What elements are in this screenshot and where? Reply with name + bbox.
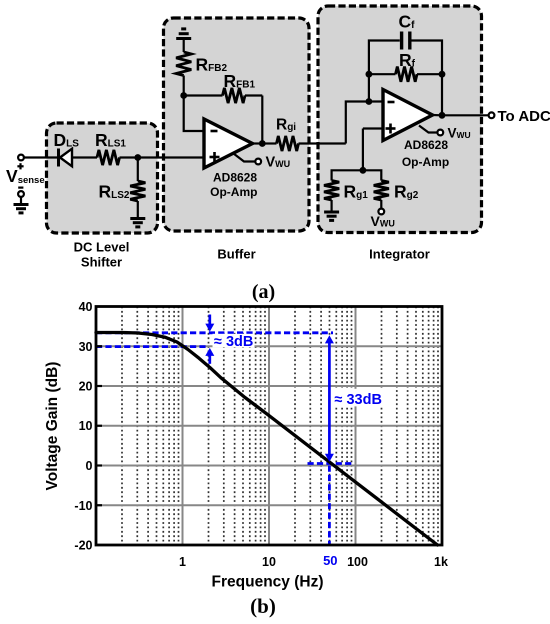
wire + input down to divider: [362, 129, 364, 171]
junction node at RLS2 top: [134, 154, 141, 161]
resistor RLS2: [130, 181, 145, 201]
node Vsense+ terminal: [18, 155, 24, 161]
svg-text:-20: -20: [74, 539, 92, 553]
svg-text:40: 40: [79, 300, 93, 314]
wire left node up to Cf: [369, 41, 400, 75]
resistor RFB1: [223, 88, 246, 103]
wire Rg1 to ground: [331, 200, 333, 212]
svg-text:Op-Amp: Op-Amp: [210, 185, 257, 199]
wire node down to RLS2: [137, 158, 139, 182]
wire output to ADC terminal: [442, 114, 489, 116]
chart frame: [96, 307, 442, 546]
svg-text:Shifter: Shifter: [81, 255, 122, 270]
wire RFB2 to feedback node: [183, 76, 185, 96]
svg-text:Integrator: Integrator: [369, 247, 430, 262]
diode DLS: [59, 149, 73, 167]
pin VWU of U1: [234, 154, 262, 165]
svg-text:Frequency (Hz): Frequency (Hz): [212, 574, 324, 591]
svg-text:20: 20: [79, 380, 93, 394]
annotation dashed line 30dB level: [96, 345, 208, 348]
junction output node buffer: [259, 140, 266, 147]
svg-text:1k: 1k: [434, 555, 448, 569]
Integrator block box: [318, 6, 482, 233]
wire right node down to output: [441, 74, 443, 115]
resistor Rgi: [277, 136, 299, 151]
wire divider node right to Rg2: [363, 170, 381, 180]
wire RLS1 to buffer + input (through node): [120, 156, 205, 158]
wire up to inverting input of U2: [346, 102, 383, 144]
svg-text:≈ 3dB: ≈ 3dB: [214, 334, 253, 350]
annotation label 3dB: [213, 334, 255, 350]
ground at Vsense-: [14, 205, 29, 213]
resistor Rg1: [324, 181, 339, 201]
wire Rf to right node: [417, 73, 442, 75]
svg-text:100: 100: [347, 555, 368, 569]
annotation arrow up 3dB: [205, 348, 214, 364]
wire Cf to right node: [412, 41, 443, 75]
pin VWU of U2: [419, 126, 443, 136]
chart major gridlines: [96, 307, 442, 546]
svg-text:-10: -10: [74, 499, 92, 513]
node Vsense- terminal: [18, 191, 24, 197]
op-amp U1 buffer AD8628: [204, 119, 253, 168]
junction feedback left node: [366, 71, 373, 78]
label Vsense: [6, 163, 45, 187]
svg-text:10: 10: [79, 419, 93, 433]
y axis tick labels: [74, 300, 92, 553]
wire inverting node up to feedback: [368, 74, 370, 101]
wire Rg2 to VWU terminal: [380, 200, 382, 209]
wire RLS2 to ground: [137, 201, 139, 219]
wire output node to Rgi: [262, 142, 276, 144]
wire RFB1 to output branch: [245, 94, 262, 96]
svg-text:DC Level: DC Level: [74, 240, 130, 255]
chart minor gridlines: [122, 307, 438, 546]
wire node to inverting input of U1: [184, 96, 204, 132]
junction inverting node: [366, 98, 373, 105]
node VWU terminal under Rg2: [378, 209, 384, 215]
svg-text:50: 50: [323, 553, 337, 568]
svg-text:0: 0: [86, 459, 93, 473]
capacitor Cf: [402, 32, 410, 50]
svg-text:10: 10: [262, 555, 276, 569]
svg-text:Voltage Gain (dB): Voltage Gain (dB): [44, 362, 61, 491]
junction feedback right node: [439, 71, 446, 78]
wire U1 output to node: [253, 142, 263, 144]
annotation double arrow 33dB: [325, 335, 334, 462]
wire Rgi to integrator input: [299, 142, 346, 144]
resistor RLS1: [97, 150, 120, 165]
ground at RLS2: [130, 219, 145, 227]
chart plot background: [96, 307, 442, 546]
wire node to RFB1: [184, 94, 223, 96]
svg-text:Buffer: Buffer: [217, 247, 255, 262]
annotation arrow down 3dB: [205, 315, 214, 332]
supply symbol above RFB2: [176, 29, 191, 39]
junction feedback node buffer: [180, 92, 187, 99]
Buffer block box: [164, 18, 310, 231]
annotation dashed vertical 50Hz: [328, 466, 331, 546]
svg-text:≈ 33dB: ≈ 33dB: [335, 392, 382, 408]
x axis tick labels: [179, 555, 448, 569]
ground at Rg1: [324, 212, 339, 220]
junction output node integrator: [439, 112, 446, 119]
chart y ticks: [96, 346, 102, 505]
svg-text:To ADC: To ADC: [498, 108, 550, 125]
resistor Rf: [396, 67, 418, 82]
op-amp U2 integrator AD8628: [383, 90, 433, 141]
wire feedback down to output node: [261, 96, 263, 144]
wire diode to RLS1: [72, 156, 97, 158]
wire Vsense+ to diode DLS: [24, 156, 59, 158]
annotation dashed line 0dB at 50Hz: [308, 462, 352, 465]
wire + input of U2: [363, 127, 383, 129]
wire U2 output to node: [433, 114, 443, 117]
svg-text:AD8628: AD8628: [213, 170, 257, 184]
svg-text:AD8628: AD8628: [404, 138, 448, 152]
caption DC Level Shifter: [74, 240, 130, 270]
svg-text:30: 30: [79, 340, 93, 354]
resistor RFB2: [176, 52, 191, 76]
junction divider node: [360, 167, 367, 174]
wire divider node left to Rg1: [332, 170, 363, 180]
svg-text:Op-Amp: Op-Amp: [402, 155, 449, 169]
annotation dashed line 33dB level: [96, 331, 333, 334]
svg-text:1: 1: [179, 555, 186, 569]
wire supply to RFB2: [183, 39, 185, 53]
DC Level Shifter block box: [47, 123, 158, 233]
wire Vsense- to ground: [20, 197, 22, 205]
annotation label 33dB: [333, 389, 384, 408]
gain curve: [96, 333, 438, 546]
resistor Rg2: [374, 181, 389, 201]
node To ADC terminal: [489, 112, 495, 118]
wire to Rf: [369, 73, 396, 75]
svg-text:(a): (a): [252, 281, 275, 303]
svg-text:(b): (b): [250, 594, 276, 618]
